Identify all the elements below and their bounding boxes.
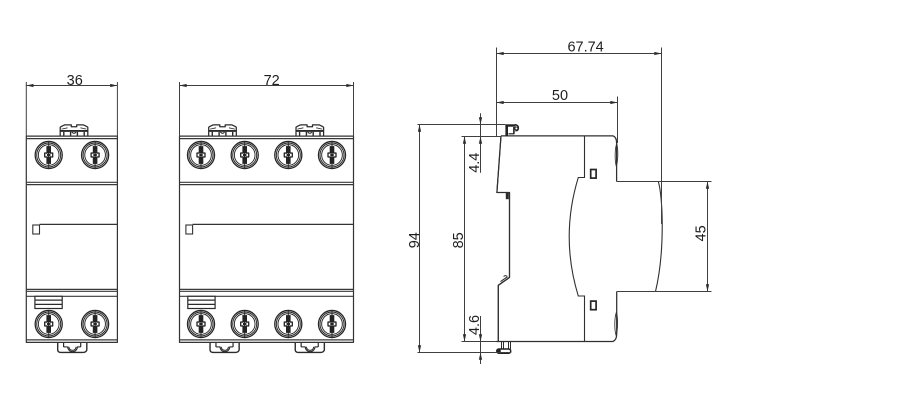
terminal screw top-right [82,141,109,168]
svg-text:85: 85 [451,232,467,248]
front marker line [40,223,118,225]
terminal band bottom lines [180,182,354,184]
terminal screw top-left [35,141,62,168]
top DIN tab [505,125,518,136]
dimension 36 [26,73,117,136]
front marker square [33,225,40,234]
svg-text:4.6: 4.6 [467,315,483,335]
svg-text:50: 50 [552,88,568,104]
svg-text:94: 94 [407,232,423,248]
terminal screw bottom-left [35,310,62,337]
device body 4-pole [180,136,354,342]
dimension 67.74 [497,39,662,224]
terminal screw top 3 [275,141,302,168]
terminal screw bottom 1 [187,310,214,337]
terminal screw bottom 2 [231,310,258,337]
svg-text:67.74: 67.74 [567,39,603,55]
front bulge arc [656,182,663,292]
top crown clip [60,125,88,136]
waist curve front face [569,137,584,342]
mid divider lines [26,289,117,296]
terminal screw top 1 [187,141,214,168]
terminal screw top 2 [231,141,258,168]
ledge lower with 45 witness [617,291,712,293]
dimension 4.4 [467,113,483,172]
terminal band bottom lines [26,182,117,184]
terminal screw bottom 4 [318,310,345,337]
svg-text:72: 72 [264,73,280,89]
ledge upper with 45 witness [617,181,712,183]
vent rectangle upper [591,170,596,179]
svg-text:4.4: 4.4 [467,153,483,173]
dimension 50 [497,88,618,143]
front marker square [186,225,193,234]
lens bump lower right [615,312,618,335]
front marker line [193,223,354,225]
inner bottom line [26,339,117,341]
dimension 85 [451,137,501,342]
left edge detail redraw [497,136,510,342]
DIN clip spring hook [499,276,510,285]
terminal screw bottom 3 [275,310,302,337]
terminal screw top 4 [318,141,345,168]
bottom clip [58,342,87,352]
label plate [35,296,62,308]
svg-text:36: 36 [67,73,83,89]
inner top line [180,138,354,140]
dimension 4.6 [467,315,483,364]
vent rectangle lower [591,301,596,310]
bottom DIN foot [497,342,511,353]
mid divider lines [180,289,354,296]
bottom clip right [295,342,324,352]
dimension 94 [407,125,511,353]
dimension 72 [180,73,354,136]
top crown clip right [296,125,324,136]
bottom clip left [210,342,239,352]
DIN slot upper block [506,193,509,199]
inner top line [26,138,117,140]
side profile outline [497,136,617,342]
inner bottom line [180,339,354,341]
top crown clip left [209,125,237,136]
device body 2-pole [26,136,117,342]
dimension 45 [693,182,709,292]
lens bump upper right [615,144,618,167]
svg-text:45: 45 [693,225,709,241]
label plate [188,296,215,308]
terminal screw bottom-right [82,310,109,337]
